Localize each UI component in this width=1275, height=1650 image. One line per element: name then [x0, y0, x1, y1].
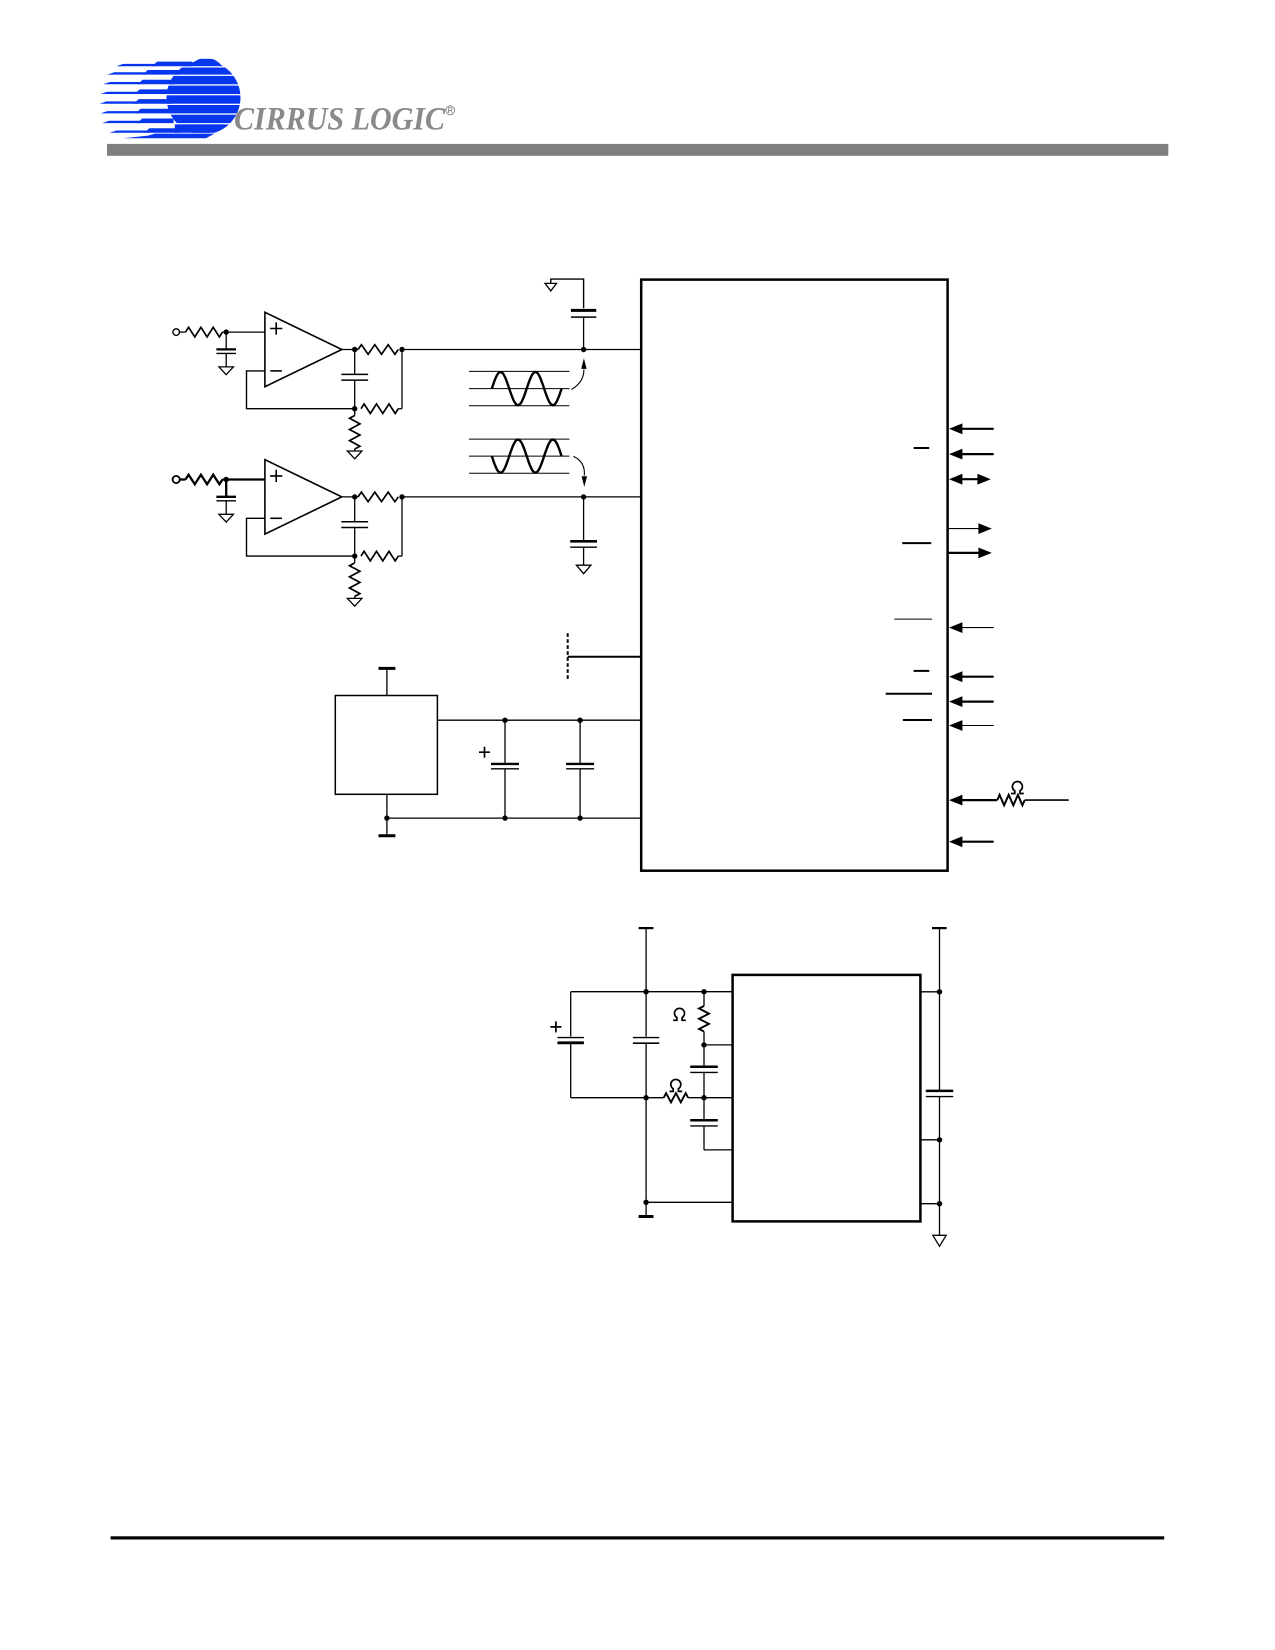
- resistor RA3 (feedback): [361, 404, 398, 414]
- ground terminal: [386, 818, 388, 834]
- wire (to U1): [568, 656, 642, 658]
- capacitor C13: [926, 1090, 953, 1093]
- node g2: [577, 815, 582, 820]
- node m2: [701, 1095, 706, 1100]
- pin overbar: [903, 719, 932, 721]
- value label ohm: [669, 1079, 682, 1091]
- footer rule: [111, 1536, 1165, 1539]
- ground (top reference): [545, 283, 557, 291]
- node oB2: [399, 494, 404, 499]
- ground: [219, 367, 234, 375]
- supply terminal left: [639, 927, 654, 929]
- arrow: reset in with pull-up: [949, 795, 962, 806]
- wire (to U2): [704, 1149, 733, 1151]
- resistor R7 (divider top): [703, 992, 705, 1006]
- resistor RA2 (output series): [358, 345, 398, 355]
- node fbA: [352, 406, 357, 411]
- arrow: serial data in 2: [949, 449, 962, 460]
- curved arrow up: [572, 370, 584, 390]
- capacitor C11: [703, 1045, 705, 1066]
- node t1: [643, 989, 648, 994]
- resistor RB2 (output series): [358, 492, 398, 502]
- dashed net stub: [567, 633, 569, 681]
- supply terminal: [386, 670, 388, 696]
- resistor R5 (pull-up): [997, 795, 1024, 805]
- pin overbar (thin): [894, 618, 932, 620]
- wire (lower rail): [571, 1097, 664, 1099]
- signal level lines B: [469, 438, 569, 440]
- op-amp UB: [265, 460, 342, 534]
- pin overbar: [914, 447, 930, 449]
- arrow: output 1: [978, 523, 991, 534]
- ground: [219, 514, 234, 522]
- pin overbar: [914, 670, 930, 672]
- gray header bar: [107, 144, 1168, 156]
- registered trademark symbol: [446, 106, 455, 115]
- capacitor CA1 (input filter): [225, 332, 227, 349]
- wire: [1025, 799, 1069, 801]
- wire: [180, 478, 186, 480]
- resistor RB3 (feedback): [361, 551, 398, 561]
- capacitor C9 (polarized bulk): [570, 992, 572, 1037]
- resistor RB4 (to ground): [354, 556, 356, 563]
- capacitor CA2 (across output): [354, 350, 356, 374]
- wire: [401, 497, 403, 556]
- capacitor C7 (polarized bulk): [504, 720, 506, 763]
- wire (ground rail): [386, 794, 388, 818]
- oscillator module Y1: [335, 696, 437, 795]
- node oA2: [399, 347, 404, 352]
- arrow: output 2: [978, 548, 991, 559]
- node g0: [384, 815, 389, 820]
- node m1: [643, 1095, 648, 1100]
- curved arrow down: [574, 456, 585, 475]
- wire (left rail): [645, 928, 647, 1037]
- wire: [342, 349, 358, 351]
- node d1: [701, 1042, 706, 1047]
- arrow: control in 2: [949, 671, 962, 682]
- node t2: [701, 989, 706, 994]
- sine wave A: [492, 372, 562, 405]
- wire (to U2): [704, 1044, 733, 1046]
- ground: [347, 598, 362, 606]
- node gL: [643, 1200, 648, 1205]
- wire AIN+ (op-amp A to U1): [402, 349, 641, 351]
- Cirrus Logic cloud logo: [100, 59, 249, 138]
- value label ohm: [1011, 782, 1024, 794]
- wire (top rail): [571, 991, 733, 993]
- wire: [401, 350, 403, 409]
- node c1: [502, 718, 507, 723]
- terminal bar bottom: [639, 1215, 654, 1218]
- ground: [576, 565, 591, 574]
- svg-text:CIRRUS LOGIC: CIRRUS LOGIC: [234, 102, 445, 138]
- wire: [342, 496, 358, 498]
- node r2: [937, 1137, 942, 1142]
- capacitor C12: [703, 1098, 705, 1120]
- sine wave B: [492, 440, 562, 473]
- wire: [180, 331, 186, 333]
- capacitor C10: [633, 1037, 659, 1039]
- IC U2 (regulator): [733, 975, 921, 1222]
- node inputA: [224, 329, 229, 334]
- resistor RA1 (series input): [186, 327, 223, 337]
- capacitor C8 (decoupling): [579, 720, 581, 763]
- wire: [551, 279, 584, 308]
- wire (U2 out top): [920, 991, 939, 993]
- capacitor CB2 (across output): [354, 497, 356, 521]
- arrow: control in 1 (thin): [949, 622, 962, 633]
- pin overbar: [886, 693, 932, 695]
- capacitor C5 (AIN+ to gnd): [571, 309, 596, 312]
- node c2: [577, 718, 582, 723]
- node r3: [937, 1201, 942, 1206]
- wire (right rail): [939, 928, 941, 1090]
- ground: [347, 451, 362, 459]
- node g1: [502, 815, 507, 820]
- wire: [223, 478, 265, 480]
- ground: [933, 1235, 946, 1246]
- wire: [223, 331, 265, 333]
- node r1: [937, 989, 942, 994]
- node outA: [352, 347, 357, 352]
- node b: [581, 494, 586, 499]
- node a: [581, 347, 586, 352]
- arrow: serial data in 1: [949, 423, 962, 434]
- wire: [688, 1097, 733, 1099]
- wire AIN- (op-amp B to U1): [402, 496, 641, 498]
- wire (bottom rail): [646, 1201, 733, 1203]
- value label ohm: [673, 1008, 686, 1020]
- IC U1 (codec): [641, 280, 947, 871]
- capacitor C6 (AIN- to gnd): [583, 497, 585, 541]
- arrow: control in 3: [949, 696, 962, 707]
- wire (U2 gnd): [920, 1203, 939, 1205]
- arrow: bidirectional bus: [949, 474, 991, 485]
- pin overbar: [902, 542, 931, 544]
- op-amp UA: [265, 312, 342, 386]
- input terminal JA: [173, 329, 180, 336]
- arrow: mute in: [949, 836, 962, 847]
- wire (osc out to U1): [437, 719, 641, 721]
- input terminal JB: [173, 476, 180, 483]
- resistor R6: [664, 1093, 688, 1102]
- supply terminal right: [932, 927, 947, 929]
- wire (U2 mid): [920, 1139, 939, 1141]
- capacitor CB1 (input filter): [225, 480, 227, 497]
- node fbB: [352, 553, 357, 558]
- resistor RA4 (to ground): [354, 409, 356, 416]
- wire (feedback to inverting input): [247, 371, 355, 409]
- arrow: control in 4 (thin): [949, 720, 962, 731]
- node inputB: [224, 477, 229, 482]
- resistor RB1 (series input): [186, 475, 223, 485]
- signal level lines A: [469, 370, 569, 372]
- wire (feedback to inverting input): [247, 518, 355, 556]
- node outB: [352, 494, 357, 499]
